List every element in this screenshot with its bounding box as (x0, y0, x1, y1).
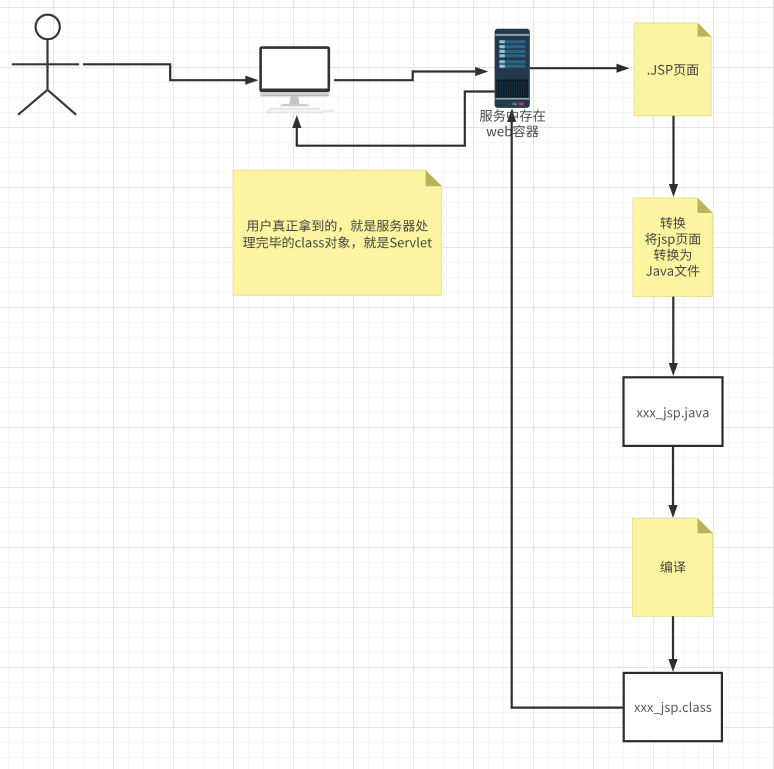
wire: xxx_jsp.class back to server arrow (507, 109, 622, 708)
wire: server to JSP page arrow (530, 64, 630, 73)
note: user gets servlet annotation (233, 170, 442, 295)
server tower icon (495, 29, 530, 108)
wire: convert to xxx_jsp.java arrow (669, 297, 678, 376)
wire: monitor to server arrow (334, 67, 488, 80)
wire: xxx_jsp.java to compile arrow (668, 447, 677, 518)
actor: user stick figure (12, 15, 79, 115)
wire: user to monitor arrow (83, 64, 258, 85)
computer monitor icon (259, 46, 334, 113)
box: xxx_jsp.class (624, 673, 722, 741)
note: .JSP page (634, 23, 711, 116)
note: compile (633, 518, 713, 616)
wire: server to monitor return arrow (292, 92, 494, 146)
box: xxx_jsp.java (624, 377, 723, 446)
wire: JSP page to convert arrow (669, 116, 678, 197)
label: server contains web container (480, 110, 545, 138)
wire: compile to xxx_jsp.class arrow (668, 616, 677, 672)
note: convert jsp to java (633, 198, 712, 297)
